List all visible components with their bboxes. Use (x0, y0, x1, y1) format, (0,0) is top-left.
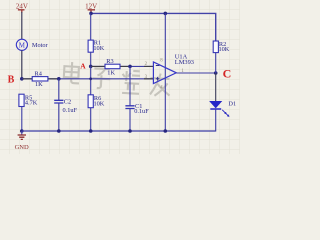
svg-text:10K: 10K (219, 46, 230, 53)
LED D1 cathode bar (210, 108, 221, 110)
op-amp supply wire pin8/pin4 (164, 13, 166, 131)
rail junction R6 (89, 129, 93, 133)
ground rail junction at R5 (20, 129, 24, 133)
svg-text:M: M (19, 41, 26, 49)
rail junction C2 (57, 129, 61, 133)
svg-text:A: A (80, 61, 86, 70)
power port 12V bar (88, 10, 95, 14)
wire junction to C2 (58, 79, 60, 100)
svg-text:10K: 10K (94, 101, 105, 108)
node B junction (20, 77, 24, 81)
wire motor to node B (21, 50, 23, 78)
svg-text:4.7K: 4.7K (25, 99, 38, 106)
rail junction op-amp V- (164, 129, 168, 133)
svg-text:R3: R3 (106, 58, 113, 65)
LED D1 triangle (210, 101, 222, 108)
svg-text:GND: GND (15, 144, 29, 151)
watermark (63, 62, 171, 97)
svg-text:Motor: Motor (32, 42, 49, 49)
op-amp minus symbol (156, 65, 160, 67)
junction op-amp V+ (164, 12, 168, 16)
svg-text:10K: 10K (93, 45, 104, 52)
op-amp plus symbol (156, 77, 160, 81)
wire 12V rail to R1 (90, 13, 92, 40)
svg-text:C2: C2 (64, 99, 71, 106)
top 12V rail wire (91, 13, 216, 41)
resistor R4 body (32, 77, 48, 81)
ground symbol (21, 131, 23, 135)
svg-text:0.1uF: 0.1uF (134, 108, 149, 115)
svg-text:B: B (8, 75, 15, 86)
junction C2 top (57, 77, 61, 81)
power port 24V bar (18, 10, 25, 13)
wire B to R5 is part of column; wire R5 to rail (21, 107, 23, 132)
svg-text:R4: R4 (35, 70, 43, 77)
pin stubs on row (black) (23, 78, 154, 80)
svg-text:24V: 24V (16, 2, 28, 10)
wire C1 top lead (129, 66, 131, 105)
svg-text:1K: 1K (35, 81, 43, 88)
wire C1 to rail (129, 109, 131, 132)
svg-text:C: C (223, 67, 232, 81)
resistor R6 body (88, 95, 93, 108)
wire R2 to node C (215, 53, 217, 73)
rail junction C1 (128, 129, 132, 133)
wire node B to op-amp pin 3 row (22, 78, 154, 80)
wire node C to LED D1 (215, 73, 217, 101)
pin stubs on row (black) (91, 65, 153, 67)
junction C1 top (128, 65, 132, 69)
capacitor C2 plates (54, 100, 63, 103)
resistor R2 body (213, 41, 218, 53)
capacitor C1 plates (125, 106, 134, 109)
motor M1 circle (16, 39, 27, 50)
svg-text:1K: 1K (107, 69, 115, 76)
svg-text:12V: 12V (85, 2, 97, 10)
LED emission arrows (222, 110, 229, 117)
svg-text:0.1uF: 0.1uF (63, 107, 78, 114)
wire op-amp output to node C (176, 72, 215, 74)
wire R6 to rail (90, 108, 92, 131)
wire C2 to ground rail (58, 103, 60, 131)
resistor R3 body (105, 64, 120, 69)
svg-text:LM393: LM393 (175, 59, 194, 66)
wire R1 to node A (90, 52, 92, 66)
resistor R5 body (19, 94, 24, 106)
junction at pin3 row crossing (89, 77, 92, 80)
wire node A down to R6 (90, 66, 92, 94)
node C junction (214, 71, 218, 75)
wire LED to rail corner (215, 109, 217, 132)
resistor R1 body (88, 40, 93, 52)
op-amp U1A triangle (153, 62, 176, 84)
bottom ground rail wire (22, 130, 216, 132)
wire 24V to motor (21, 12, 23, 39)
junction 12V stub (89, 12, 93, 16)
svg-text:D1: D1 (228, 101, 236, 108)
wire node A to op-amp pin 2 row (91, 65, 154, 67)
node A junction (89, 65, 93, 69)
